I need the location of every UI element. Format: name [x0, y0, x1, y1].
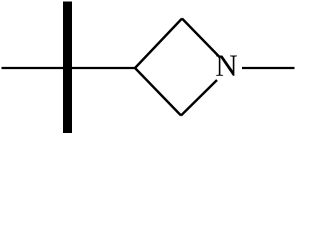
- node N: [216, 56, 237, 76]
- wire: horizontal bond left edge to ring left vertex: [2, 67, 136, 69]
- wire: ring bond top vertex to N: [182, 19, 220, 58]
- thick vertical bar: [63, 2, 72, 134]
- chemical structure: 1-methylazetidine with tert-butyl style thick bond: [0, 0, 295, 135]
- wire: ring bond left vertex to top vertex: [135, 19, 182, 69]
- wire: ring bond left vertex to bottom vertex: [135, 68, 181, 116]
- wire: ring bond bottom vertex to N: [181, 80, 217, 116]
- wire: bond N to right edge: [242, 67, 295, 69]
